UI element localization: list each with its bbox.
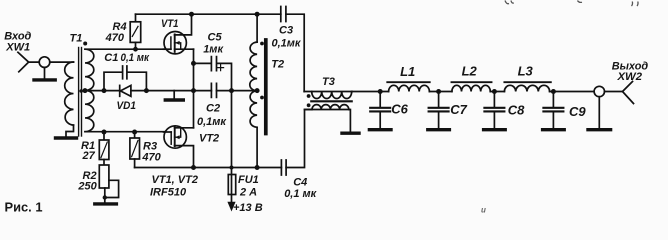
svg-text:C6: C6 — [391, 102, 408, 117]
svg-text:L3: L3 — [518, 64, 534, 79]
svg-text:0,1мк: 0,1мк — [197, 116, 227, 128]
svg-text:VD1: VD1 — [117, 100, 137, 112]
svg-text:0,1 мк: 0,1 мк — [284, 188, 317, 200]
svg-text:T1: T1 — [70, 32, 83, 44]
svg-text:C2: C2 — [206, 103, 220, 115]
svg-text:L2: L2 — [462, 64, 478, 79]
svg-text:+13 В: +13 В — [233, 202, 263, 214]
svg-text:VT1: VT1 — [161, 18, 179, 30]
svg-text:T3: T3 — [322, 76, 335, 88]
svg-text:C4: C4 — [293, 176, 307, 188]
svg-text:470: 470 — [105, 32, 125, 44]
svg-text:1мк: 1мк — [203, 44, 224, 56]
svg-text:IRF510: IRF510 — [150, 187, 187, 199]
svg-text:T2: T2 — [271, 58, 284, 70]
svg-text:250: 250 — [77, 181, 97, 193]
svg-text:C5: C5 — [208, 31, 223, 43]
svg-text:XW1: XW1 — [5, 42, 30, 54]
svg-text:Рис. 1: Рис. 1 — [5, 201, 43, 215]
svg-text:XW2: XW2 — [616, 71, 642, 83]
svg-text:C8: C8 — [508, 103, 525, 118]
svg-text:0,1 мк: 0,1 мк — [121, 52, 151, 64]
svg-text:FU1: FU1 — [238, 174, 259, 186]
svg-text:C7: C7 — [450, 102, 467, 117]
svg-text:C3: C3 — [279, 25, 293, 37]
svg-text:C9: C9 — [569, 104, 586, 119]
svg-text:L1: L1 — [400, 64, 415, 79]
svg-text:2 А: 2 А — [239, 187, 257, 199]
svg-text:27: 27 — [82, 150, 96, 162]
svg-text:и: и — [481, 206, 486, 215]
svg-text:0,1мк: 0,1мк — [272, 37, 302, 49]
svg-text:VT2: VT2 — [199, 133, 219, 145]
svg-text:470: 470 — [141, 152, 161, 164]
svg-text:VT1, VT2: VT1, VT2 — [152, 174, 198, 186]
svg-text:C1: C1 — [104, 52, 118, 64]
